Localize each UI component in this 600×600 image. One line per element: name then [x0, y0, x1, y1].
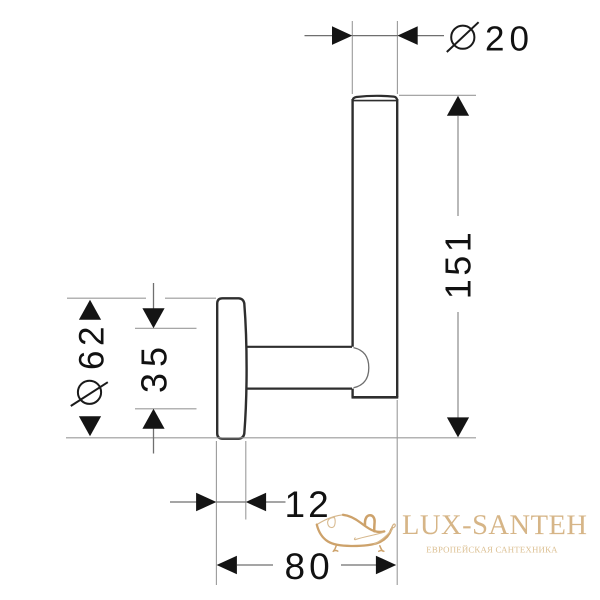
value label 151 (rotated) — [438, 229, 479, 300]
svg-text:ЕВРОПЕЙСКАЯ САНТЕХНИКА: ЕВРОПЕЙСКАЯ САНТЕХНИКА — [426, 544, 558, 554]
watermark wordmark LUX-SANTEH — [402, 510, 588, 541]
watermark bathtub icon — [317, 515, 395, 552]
svg-text:LUX-SANTEH: LUX-SANTEH — [402, 510, 588, 541]
svg-text:20: 20 — [485, 20, 534, 59]
extension line phi20 left — [351, 21, 353, 94]
value label 12 — [284, 484, 331, 525]
svg-text:62: 62 — [73, 322, 112, 370]
reference line phi62 top — [67, 297, 216, 299]
extension line 12 right — [245, 441, 247, 520]
svg-text:151: 151 — [438, 229, 479, 300]
diameter symbol for 20 — [447, 22, 479, 52]
reference line 151/phi62 bottom — [66, 437, 476, 439]
dimension line 12 — [170, 493, 286, 512]
dimension line 80 — [217, 556, 397, 575]
dimension arrows phi62 — [79, 300, 101, 436]
value label 20 — [485, 20, 534, 59]
extension line phi20 right — [396, 21, 398, 94]
reference line 35 top — [135, 327, 197, 329]
value label 80 — [284, 546, 333, 587]
svg-text:35: 35 — [134, 341, 175, 393]
dimension line 35 — [142, 283, 164, 454]
value label 62 (rotated) — [73, 322, 112, 370]
svg-text:12: 12 — [284, 484, 331, 525]
tube top cap — [353, 96, 398, 101]
dimension line phi20 — [305, 26, 445, 45]
vertical tube outline — [352, 99, 399, 397]
watermark subtitle — [426, 544, 558, 554]
value label 35 (rotated) — [134, 341, 175, 393]
svg-text:80: 80 — [284, 546, 333, 587]
extension line 12/80 left — [215, 441, 217, 585]
reference line 35 bottom — [135, 408, 197, 410]
arm end fillet arc inside tube — [354, 348, 369, 388]
extension line 80 right — [396, 400, 398, 585]
wall plate — [217, 298, 246, 438]
diameter symbol for 62 (rotated) — [71, 381, 108, 406]
dimension line 151 — [447, 96, 469, 438]
holder arm bottom edge — [246, 388, 352, 390]
holder arm top edge — [246, 346, 352, 348]
reference line 151 top — [399, 94, 476, 96]
